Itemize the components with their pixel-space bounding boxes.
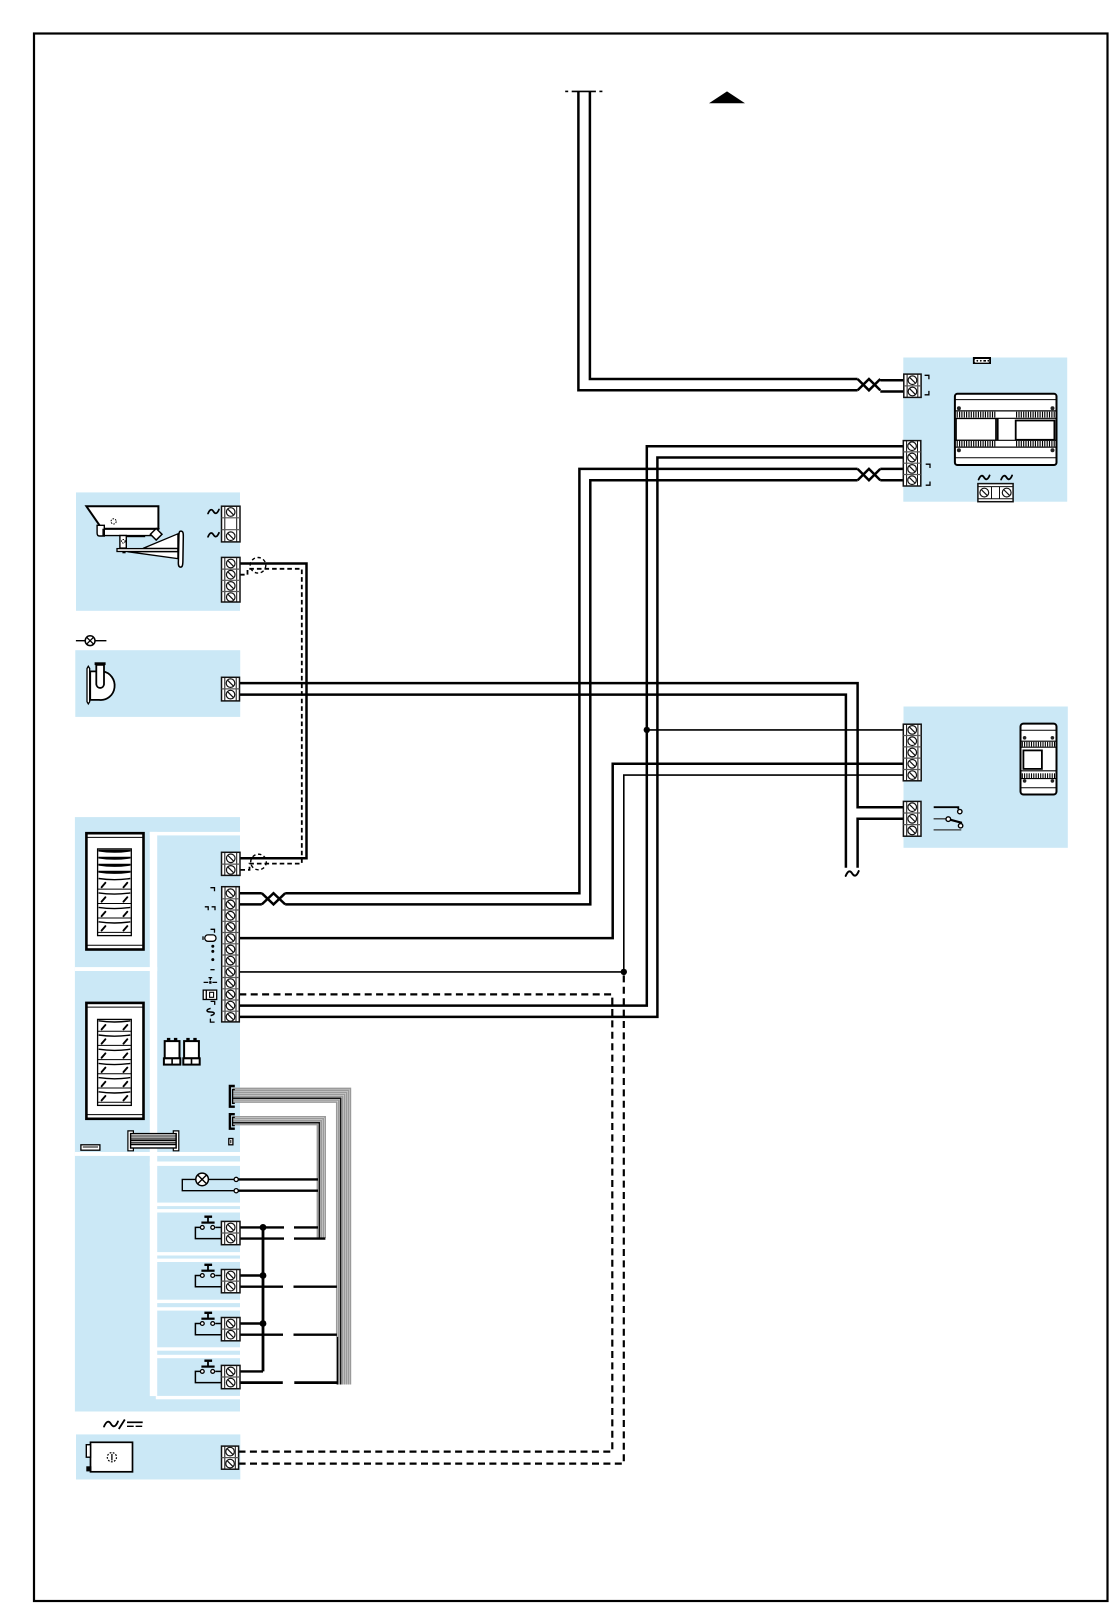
wire TB6 t5 to relay TB8 t4 [239,764,903,938]
terminal block button 2 [221,1270,240,1293]
AC/DC legend [104,1420,143,1430]
wire relay TB9 t2 to AC source [858,819,904,868]
terminal block TB6 (panel main strip) [222,887,240,1022]
spotlight zone box [75,650,240,717]
small connector C3 [229,1139,233,1145]
AC source tilde [846,871,859,876]
wire relay TB8 t1 tap (thin) [647,729,904,731]
twisted-pair mark at TB1 [858,379,881,390]
direction triangle [709,91,745,103]
label strip [81,1145,100,1150]
junction node at x624 [621,969,627,975]
camera AC tildes [208,509,219,513]
terminal block TB10 (bottom PSU out) [222,1446,239,1469]
flat cable connector C1 [230,1086,235,1107]
terminal block TB1 (PSU riser in) [904,374,921,397]
configurator jumper J1 [164,1038,180,1065]
terminal block TB7 (spotlight) [222,677,240,701]
camera zone box [76,492,240,610]
wire spotlight t2 to AC source [240,695,846,868]
terminal block button 3 [221,1318,240,1341]
PSU DIN module [955,394,1057,465]
entrance plate module 1 (speaker + 4 buttons) [86,833,143,949]
button 3 wires [240,1322,263,1324]
twisted-pair mark at TB6 [262,893,285,904]
terminal block button 4 [221,1365,240,1388]
spotlight icon [87,662,115,704]
CCTV camera icon [86,506,183,567]
configurator jumper J2 [183,1038,199,1065]
pushbutton 1 symbol [195,1217,221,1239]
flat cable connector C2 [230,1114,235,1129]
panel lamp symbol [182,1173,238,1193]
programming connector icon [973,357,991,364]
entrance plate module 2 (6 buttons) [86,1003,143,1119]
cable grouping circle (top) [250,558,266,574]
bracket marks TB2 [926,464,930,485]
ribbon cable A (upper connector, to buttons 2-4) [233,1088,351,1384]
lamp wires to ribbon B [239,1178,319,1180]
junction node at x647 [644,727,650,733]
button 2 wires [240,1274,263,1276]
button 4 wires [240,1370,263,1372]
pushbutton 2 symbol [195,1265,221,1287]
bus junction dots [260,1224,267,1231]
terminal block TB2 (PSU bus out) [903,441,921,486]
terminal block TB8 (relay inputs) [903,724,921,781]
ribbon cable B (lower connector, to lamp and button 1) [233,1117,326,1238]
terminal block TB4 (camera video out) [222,557,241,602]
button bus wire [262,1227,265,1371]
TB6 dots pictogram [211,945,214,948]
dashed wire bottom PSU t2 up to junction [239,975,624,1464]
button 1 wires [240,1226,284,1228]
relay DIN module [1021,724,1057,795]
AC input terminal under PSU module [978,484,1013,502]
wire stubs into TB1 [880,379,904,382]
relay zone box [904,707,1068,848]
entrance panel zone box [75,817,240,1411]
ribbon A darkened strand [337,1337,339,1385]
bracket marks TB1 [925,375,929,395]
terminal block button 1 [221,1221,240,1244]
terminal block TB5 (panel camera in) [222,852,241,875]
camera coax wire (solid) TB4 t1 to TB5 t1 [240,564,307,859]
camera wire (dashed) TB4 t2 to TB5 t2 [240,569,302,870]
pushbutton 3 symbol [195,1313,221,1335]
auxiliary power supply icon [86,1442,132,1472]
terminal block TB3 (camera power) [222,506,241,542]
terminal block TB9 (relay contact) [903,801,921,836]
wire relay TB8 t5 down [624,775,904,972]
lamp legend symbol [76,636,107,646]
riser continuation mark [572,90,596,92]
riser pair A: continuation down to PSU terminal TB1 [578,92,857,390]
relay changeover contact symbol [934,807,963,830]
TB6 terminal pictograms [203,888,217,1022]
riser pair B: PSU TB2 t3/t4 down to panel TB6 t1/t2 [880,468,903,471]
panel internal white dividers [75,832,240,1399]
AC tildes above block [979,475,990,479]
wire TB6 t8 (thin) [239,971,624,973]
top-right power-supply zone box [903,358,1067,502]
bottom power-supply zone box [76,1434,240,1479]
wire PSU TB2 t2 to panel TB6 t12 [239,458,903,1017]
dashed wire TB6 t10 to bottom PSU t1 [239,994,613,1451]
flat ribbon cable segment [128,1131,179,1151]
wire spotlight t1 to relay TB9 t1 [240,683,904,807]
pushbutton 4 symbol [195,1361,221,1383]
cable grouping circle (bottom) [251,854,267,870]
wire PSU TB2 t1 to panel TB6 t11 [239,446,903,1005]
